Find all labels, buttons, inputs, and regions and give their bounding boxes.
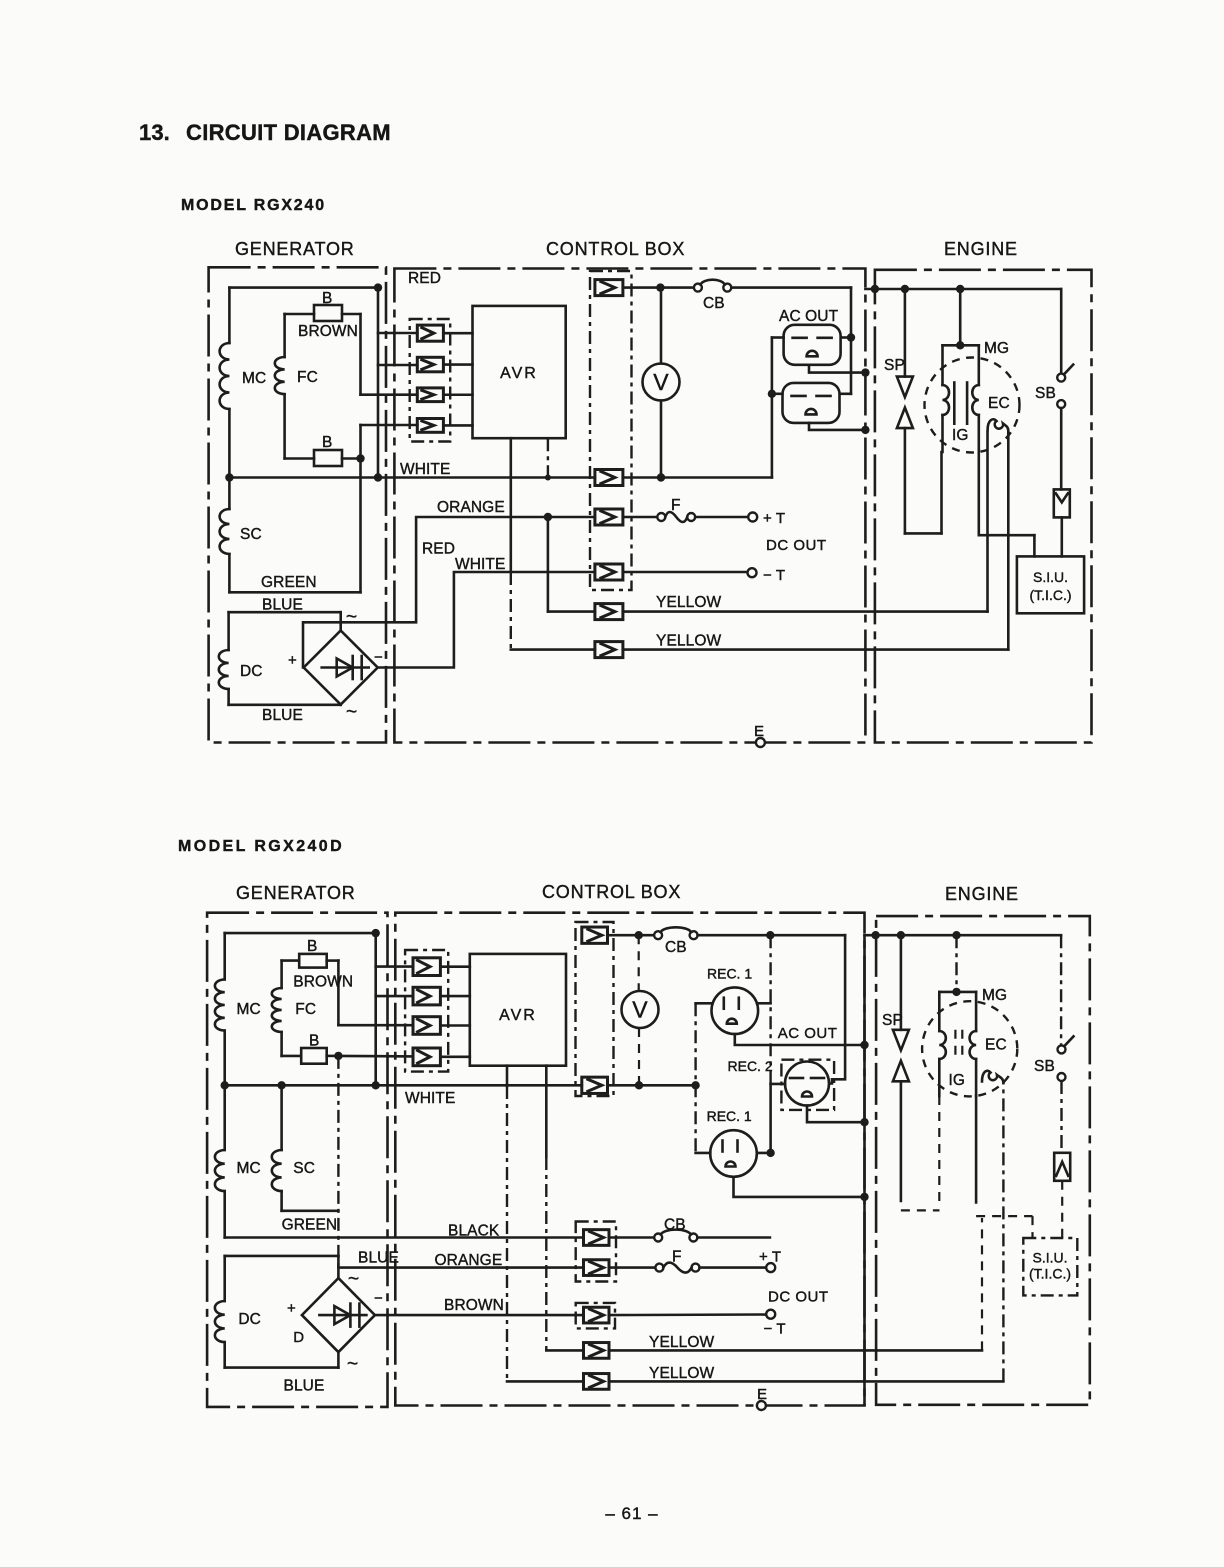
svg-text:– 61 –: – 61 – <box>605 1504 658 1523</box>
svg-text:MODEL RGX240D: MODEL RGX240D <box>178 838 344 855</box>
svg-text:SP: SP <box>884 357 905 374</box>
svg-text:−: − <box>374 649 383 666</box>
svg-text:B: B <box>322 434 332 451</box>
svg-text:BLUE: BLUE <box>358 1250 399 1267</box>
svg-text:+ T: + T <box>763 510 785 527</box>
svg-text:YELLOW: YELLOW <box>649 1334 714 1351</box>
svg-text:RED: RED <box>422 541 455 558</box>
svg-text:+: + <box>287 1300 296 1317</box>
svg-text:MODEL RGX240: MODEL RGX240 <box>181 197 326 214</box>
svg-text:GENERATOR: GENERATOR <box>235 239 355 259</box>
svg-text:BROWN: BROWN <box>444 1297 504 1314</box>
svg-text:E: E <box>754 723 764 740</box>
svg-text:CB: CB <box>703 295 725 312</box>
svg-text:YELLOW: YELLOW <box>656 594 721 611</box>
svg-text:~: ~ <box>348 1269 359 1290</box>
svg-text:CIRCUIT DIAGRAM: CIRCUIT DIAGRAM <box>186 120 391 145</box>
svg-text:FC: FC <box>295 1001 316 1018</box>
svg-text:ORANGE: ORANGE <box>435 1252 503 1269</box>
svg-text:E: E <box>757 1386 767 1403</box>
svg-text:BLUE: BLUE <box>262 707 303 724</box>
svg-text:MC: MC <box>242 370 266 387</box>
svg-text:S.I.U.: S.I.U. <box>1033 569 1068 585</box>
svg-text:FC: FC <box>297 369 318 386</box>
svg-text:BROWN: BROWN <box>298 323 358 340</box>
svg-text:ENGINE: ENGINE <box>944 239 1018 259</box>
svg-text:GREEN: GREEN <box>282 1217 338 1234</box>
svg-text:F: F <box>672 1249 682 1266</box>
svg-text:MG: MG <box>982 987 1007 1004</box>
svg-text:MG: MG <box>984 340 1009 357</box>
svg-text:B: B <box>322 290 332 307</box>
svg-text:GREEN: GREEN <box>261 574 317 591</box>
svg-text:REC. 2: REC. 2 <box>728 1058 773 1074</box>
svg-text:WHITE: WHITE <box>405 1090 455 1107</box>
svg-text:DC: DC <box>240 663 263 680</box>
svg-text:SP: SP <box>882 1012 903 1029</box>
svg-text:V: V <box>653 369 669 395</box>
svg-text:AC OUT: AC OUT <box>779 308 839 325</box>
svg-text:F: F <box>671 497 681 514</box>
svg-text:CONTROL BOX: CONTROL BOX <box>542 882 681 902</box>
svg-text:AVR: AVR <box>500 365 538 382</box>
svg-text:~: ~ <box>346 607 357 628</box>
svg-text:CONTROL BOX: CONTROL BOX <box>546 239 685 259</box>
svg-text:S.I.U.: S.I.U. <box>1032 1250 1067 1266</box>
svg-text:ORANGE: ORANGE <box>437 499 505 516</box>
svg-text:AVR: AVR <box>499 1007 537 1024</box>
svg-text:13.: 13. <box>139 120 170 145</box>
svg-text:(T.I.C.): (T.I.C.) <box>1029 1266 1071 1282</box>
svg-text:MC: MC <box>237 1001 261 1018</box>
svg-text:SB: SB <box>1034 1058 1055 1075</box>
svg-text:MC: MC <box>237 1160 261 1177</box>
svg-text:SB: SB <box>1035 385 1056 402</box>
svg-text:~: ~ <box>346 702 357 723</box>
svg-text:GENERATOR: GENERATOR <box>236 883 356 903</box>
svg-text:− T: − T <box>764 1321 786 1338</box>
svg-text:IG: IG <box>952 427 969 444</box>
svg-text:SC: SC <box>240 526 262 543</box>
svg-text:EC: EC <box>988 395 1010 412</box>
svg-text:BLACK: BLACK <box>448 1223 500 1240</box>
svg-text:− T: − T <box>763 567 785 584</box>
svg-text:BROWN: BROWN <box>293 974 353 991</box>
svg-text:−: − <box>374 1290 383 1307</box>
svg-text:CB: CB <box>665 939 687 956</box>
svg-text:+ T: + T <box>759 1249 781 1266</box>
svg-text:AC OUT: AC OUT <box>778 1025 838 1042</box>
svg-text:V: V <box>632 997 648 1023</box>
svg-text:CB: CB <box>664 1217 686 1234</box>
svg-text:REC. 1: REC. 1 <box>707 1108 752 1124</box>
svg-text:BLUE: BLUE <box>284 1378 325 1395</box>
svg-text:YELLOW: YELLOW <box>656 633 721 650</box>
svg-text:EC: EC <box>985 1037 1007 1054</box>
svg-text:IG: IG <box>949 1072 966 1089</box>
svg-text:REC. 1: REC. 1 <box>707 966 752 982</box>
svg-text:YELLOW: YELLOW <box>649 1365 714 1382</box>
svg-text:DC OUT: DC OUT <box>768 1289 829 1306</box>
svg-text:(T.I.C.): (T.I.C.) <box>1030 587 1072 603</box>
svg-text:+: + <box>288 652 297 669</box>
svg-text:B: B <box>309 1033 319 1050</box>
svg-text:WHITE: WHITE <box>400 461 450 478</box>
svg-text:SC: SC <box>293 1160 315 1177</box>
svg-text:D: D <box>293 1329 304 1346</box>
svg-text:DC: DC <box>238 1311 261 1328</box>
svg-text:WHITE: WHITE <box>455 556 505 573</box>
svg-text:RED: RED <box>408 270 441 287</box>
svg-text:DC OUT: DC OUT <box>766 537 827 554</box>
svg-text:~: ~ <box>347 1354 358 1375</box>
svg-text:B: B <box>307 938 317 955</box>
svg-text:ENGINE: ENGINE <box>945 884 1019 904</box>
